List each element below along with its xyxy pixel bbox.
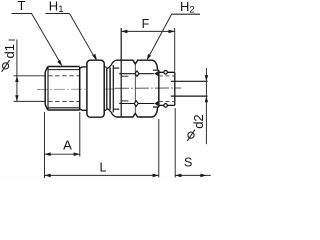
sleeve top edge [116,60,157,70]
arrow phi-d1 down [15,95,18,101]
arrow F left [121,30,127,34]
wire L right extension [158,119,160,178]
tube top line [171,80,208,82]
wire phi-d1 extension line bottom [14,100,46,102]
collar right face [174,72,176,105]
nut H2 left body edges [113,68,119,109]
leader H2 [148,14,172,59]
arrow S right [200,174,206,178]
arrow L right [153,174,159,178]
arrow phi-d1 up [15,76,18,82]
label T underline [12,13,33,15]
button boundary vertical [134,64,136,114]
triangle mark top [154,71,158,76]
triangle mark bottom [154,101,158,106]
slot line top row [119,73,154,75]
arrow A left [45,152,51,156]
nut H2 left chamfers [107,65,111,112]
wire A right extension [79,112,81,157]
collar top edge [159,71,175,73]
collar bottom edge [159,104,175,106]
leader H1 [70,14,96,60]
svg-text:F: F [142,17,150,31]
dimension F line [121,30,175,32]
thread root dashed bottom [48,100,80,102]
thread crest line top [48,69,80,71]
arrow phi-d2 up [205,96,208,102]
label H2 underline [172,13,200,15]
label phi-d1 top tick [9,39,16,41]
collar hidden line top [159,75,175,77]
collar hidden line bottom [159,100,175,102]
thread body outline [45,67,79,111]
thread root dashed top [48,75,80,77]
slot second line top [121,75,129,77]
dimension A line [45,153,80,155]
joint line / F left extension [120,28,122,117]
pin circle bottom [164,104,168,108]
dimension L line [45,174,159,176]
sleeve bottom edge [116,107,157,117]
arrow phi-d2 down [205,75,208,81]
svg-text:H2: H2 [180,0,195,15]
svg-text:L: L [100,161,107,175]
hex H1 left face [79,67,81,110]
svg-text:T: T [18,0,26,13]
label H1 underline [46,13,70,15]
arrow F right [169,30,175,34]
svg-text:S: S [184,155,192,169]
svg-text:d2: d2 [191,114,206,128]
hex H1 right face [106,67,108,110]
thread chamfer vertical [47,67,49,111]
svg-text:H1: H1 [49,0,64,15]
wire F right extension [174,28,176,72]
svg-text:d1: d1 [2,44,17,58]
diamond mark top [135,71,139,76]
label phi-d2 [187,130,195,142]
nut H2 left face [109,68,111,110]
arrow T leader [57,60,62,66]
arrow A right [74,152,80,156]
label phi-d1 [2,60,10,72]
node centerline [37,88,115,91]
nut right side facet edges [153,70,159,107]
nut right face [158,70,160,107]
leader T [32,13,62,64]
nut H2 inner facet line [112,65,114,113]
diamond mark bottom [134,101,138,107]
hex H1 side facet bottom edges [80,109,107,110]
tube bottom line [171,95,208,97]
slot second line bottom [121,100,129,102]
wire S left extension [174,108,176,178]
thread crest line bottom [48,107,80,109]
arrow H1 leader [92,54,97,61]
slot line bottom row [119,103,154,105]
svg-text:A: A [63,137,72,152]
dimension S line [175,174,211,176]
dimension phi-d2 vertical line [205,68,207,144]
arrow S left [175,174,181,178]
hex H1 side facet top edges [80,67,107,68]
node centerline right [115,87,181,89]
wire phi-d1 extension line top [14,75,46,77]
arrow L left [45,174,51,178]
arrow H2 leader [147,54,151,60]
wire A-L left extension [44,112,46,178]
nut H2 left corner arcs [111,60,116,117]
dimension phi-d1 vertical line [16,40,18,102]
hex H1 center facet [87,60,104,117]
pin circle top [164,71,168,75]
